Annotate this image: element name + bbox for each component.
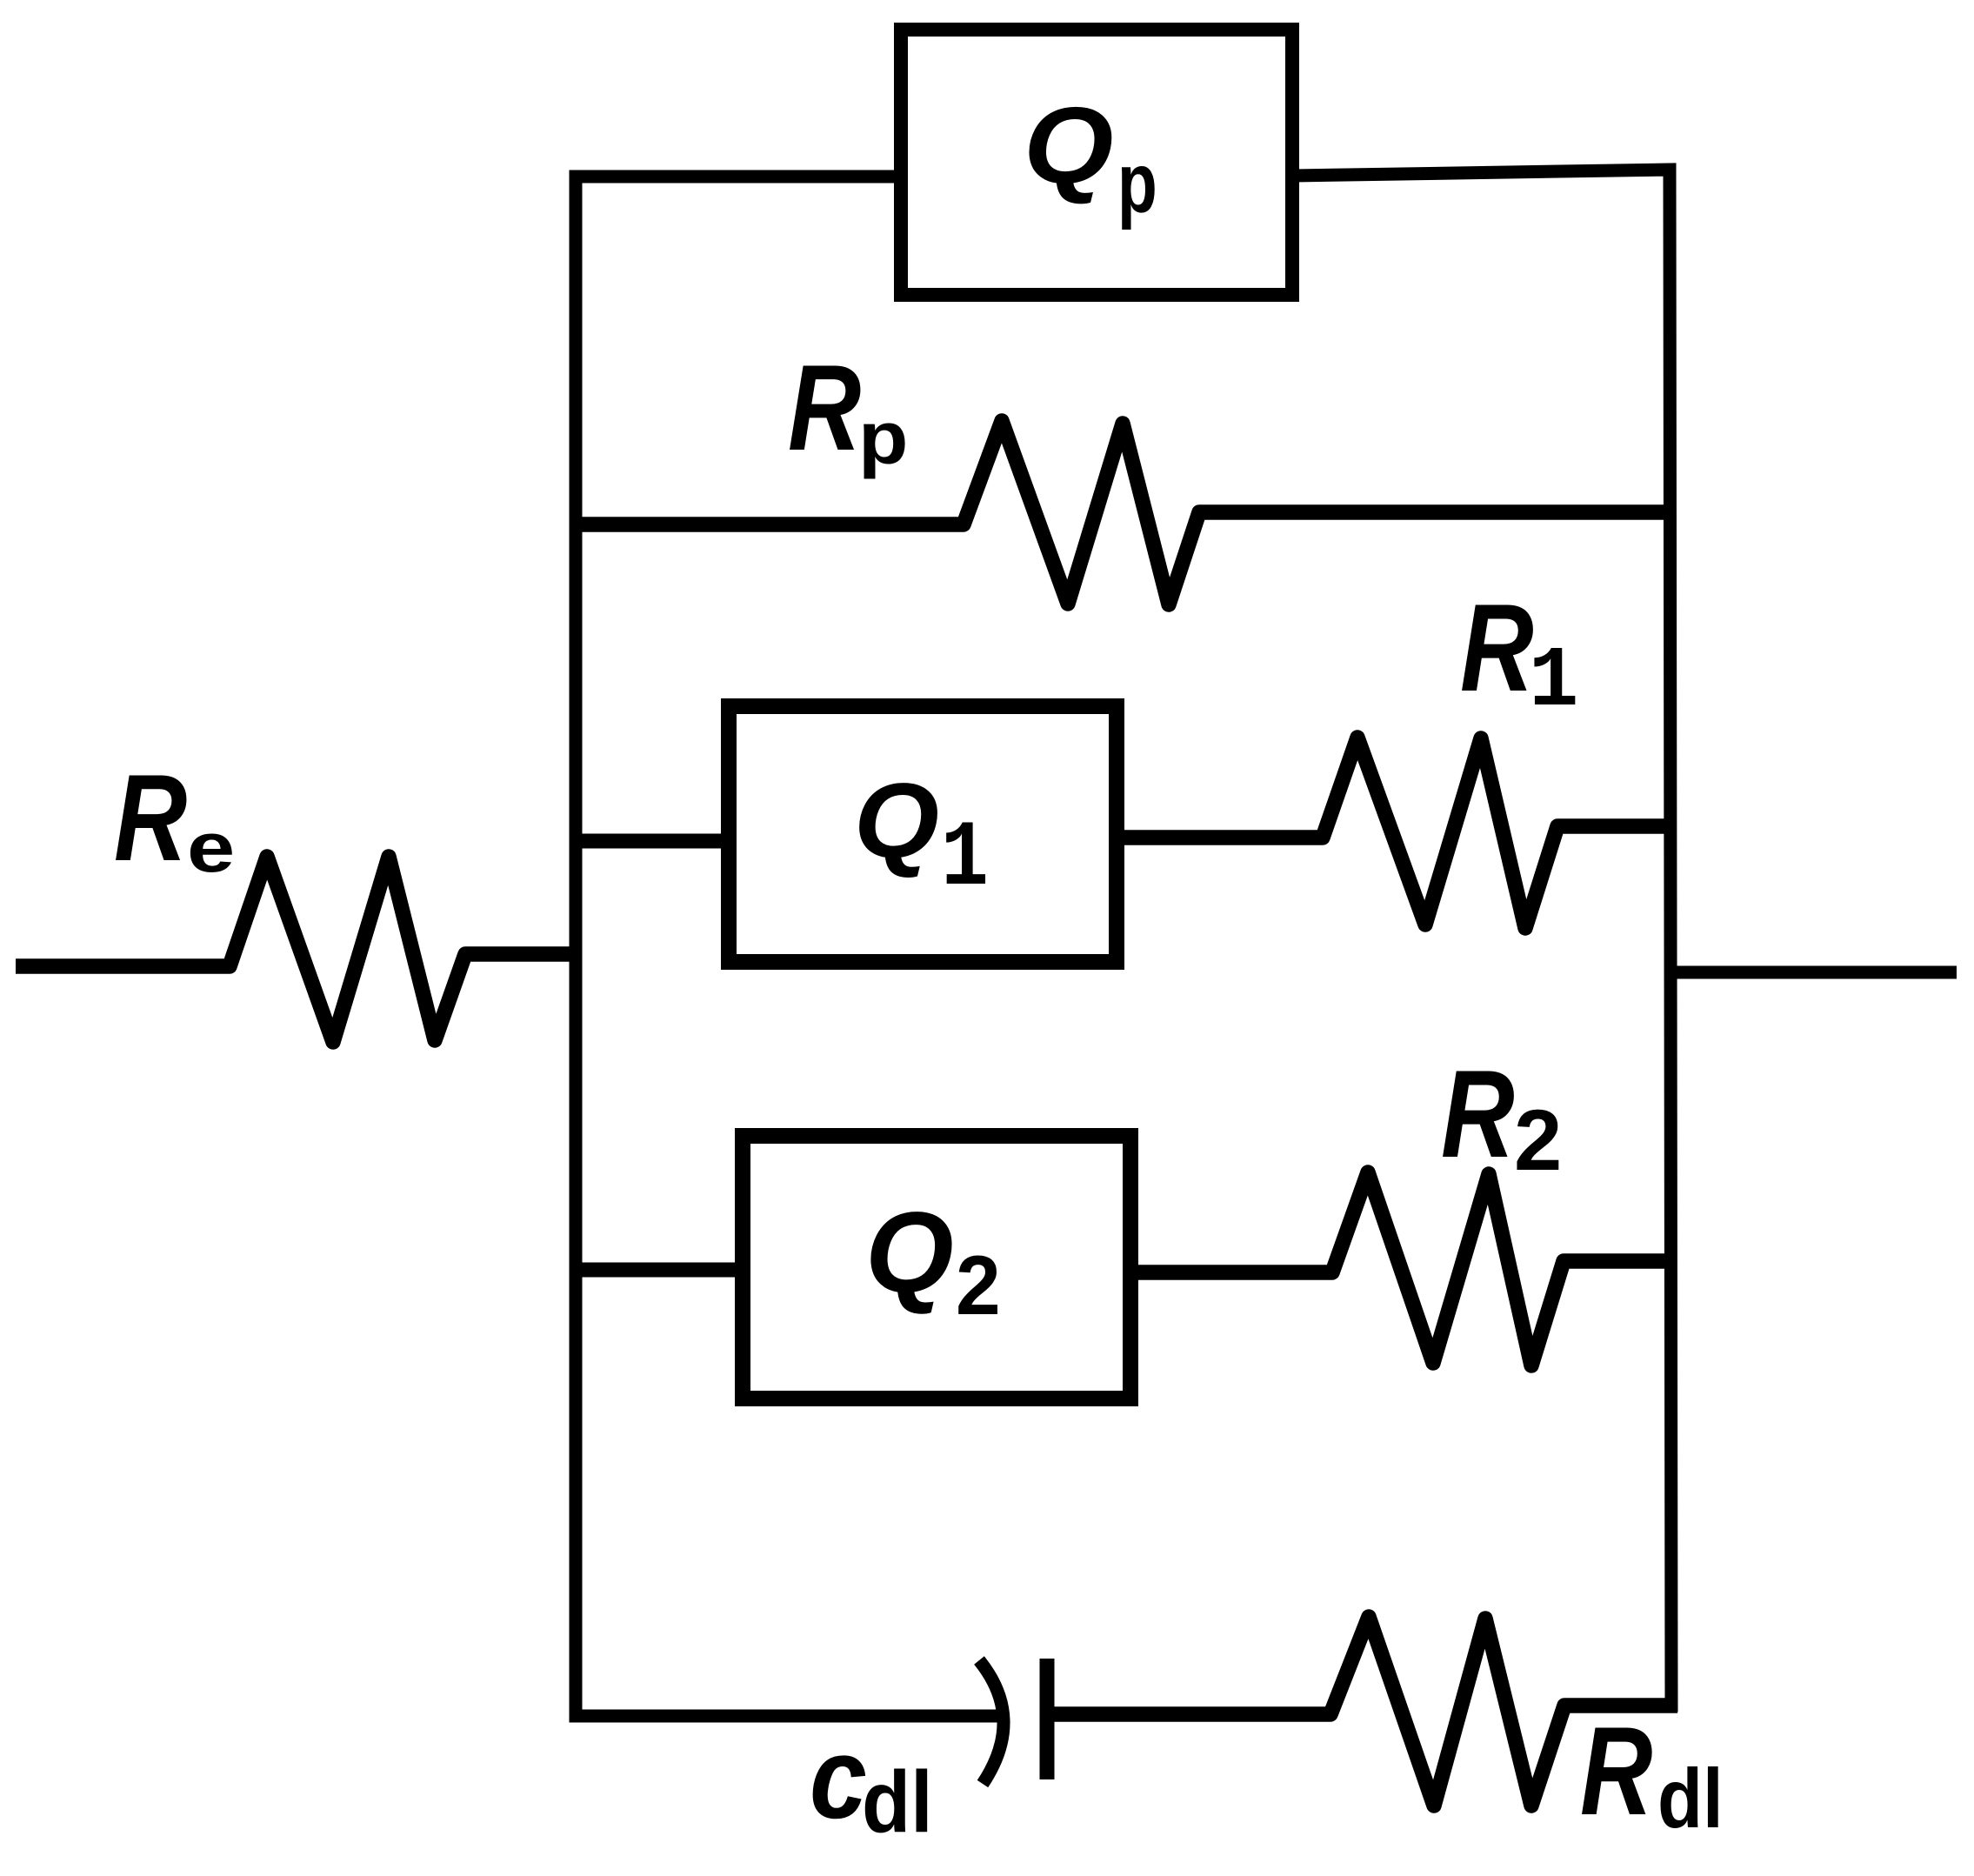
wire from left bus, resistor Rp, wire to right bus: [576, 421, 1671, 604]
svg-text:R: R: [1441, 1045, 1515, 1184]
box Q2: [743, 1136, 1130, 1399]
svg-text:Q: Q: [1024, 85, 1114, 206]
svg-text:p: p: [1117, 136, 1157, 230]
svg-text:R: R: [1580, 1699, 1652, 1840]
svg-text:1: 1: [1529, 634, 1578, 731]
wire: left bus to box Q2: [576, 1263, 744, 1278]
svg-text:2: 2: [956, 1238, 1001, 1332]
svg-text:dl: dl: [1657, 1752, 1724, 1846]
svg-text:1: 1: [941, 806, 989, 911]
svg-text:R: R: [114, 748, 187, 886]
wire: right bus with top wire from Qp and bottom wire from Rdl: [1294, 170, 1671, 1706]
wire from Q1, resistor R1, wire to right bus: [1117, 738, 1671, 928]
box Qp: [901, 30, 1292, 295]
svg-text:dl: dl: [862, 1753, 933, 1850]
wire: output lead right: [1671, 966, 1957, 979]
wire from capacitor, resistor Rdl, wire to right bus: [1047, 1617, 1677, 1806]
svg-text:p: p: [858, 397, 908, 480]
svg-text:Q: Q: [854, 762, 939, 879]
wire from Q2, resistor R2, wire to right bus: [1130, 1172, 1671, 1365]
box Q1: [729, 706, 1117, 962]
svg-text:2: 2: [1514, 1092, 1562, 1189]
wire: left bus with top wire to Qp and bottom wire to Cdl: [576, 177, 1000, 1716]
svg-text:c: c: [810, 1713, 867, 1843]
capacitor Cdl straight plate: [1040, 1659, 1055, 1779]
wire: left bus to box Q1: [576, 834, 730, 849]
svg-text:R: R: [1460, 578, 1534, 718]
capacitor Cdl curved plate: [979, 1660, 1004, 1784]
wire: input lead left, resistor Re, wire to left bus: [16, 857, 582, 1042]
svg-text:Q: Q: [865, 1188, 954, 1316]
svg-text:R: R: [788, 340, 861, 477]
svg-text:e: e: [187, 809, 235, 887]
